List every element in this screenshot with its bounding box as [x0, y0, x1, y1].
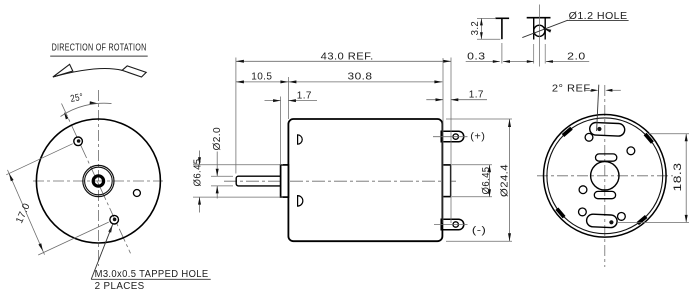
- pin hole lower: [609, 220, 613, 224]
- svg-text:10.5: 10.5: [251, 71, 272, 83]
- arrow dia2.0 top: [216, 169, 219, 177]
- 18.3 extension lower: [617, 221, 689, 223]
- extension line collar left: [280, 97, 282, 165]
- front view 25deg hole axis centerline: [62, 104, 131, 254]
- dimension line dia 6.45 left: [199, 151, 201, 165]
- arrow dia6.45R bottom: [488, 189, 491, 197]
- rotation arrow right tail: [122, 66, 146, 77]
- rim crimp tab NW: [563, 128, 572, 135]
- svg-text:Ø6.45: Ø6.45: [193, 158, 204, 186]
- pin2 edge extensions: [533, 44, 535, 64]
- arrow 30.8 left: [288, 80, 296, 83]
- rear hole NW: [585, 133, 593, 141]
- dia1.2 leader arrow: [543, 28, 551, 32]
- 25deg arc arrow right: [90, 101, 98, 104]
- vent mark lower: [298, 196, 303, 207]
- 2.0 arrow right: [546, 60, 553, 63]
- motor body outline: [288, 119, 442, 241]
- arrow dia6.45L top: [198, 157, 201, 165]
- extension line right end 43.0: [450, 58, 452, 224]
- extension line body top right: [446, 118, 512, 120]
- svg-text:Ø6.45: Ø6.45: [481, 166, 492, 194]
- rear hole SW: [579, 208, 587, 216]
- vent mark upper: [298, 135, 303, 144]
- 18.3 arrow bottom: [685, 215, 688, 223]
- vent slot below center: [594, 191, 615, 198]
- rear view horizontal centerline: [537, 175, 673, 177]
- extension line collar bottom: [193, 196, 283, 198]
- rotation arrow arc: [53, 69, 122, 77]
- front view vertical centerline: [97, 90, 99, 266]
- svg-text:1.7: 1.7: [297, 90, 312, 102]
- rim crimp tab NE: [645, 134, 652, 143]
- 17.0 arrow upper: [9, 173, 14, 181]
- terminal hole positive: [453, 134, 458, 139]
- body centerline: [224, 180, 456, 182]
- arrow 10.5 right: [280, 80, 288, 83]
- rear view inner circle: [547, 118, 663, 234]
- 25deg arc arrow left: [64, 112, 69, 119]
- pin1 stem extension: [501, 43, 503, 64]
- arrow 1.7 left b: [288, 99, 296, 102]
- 3.2 extension top: [477, 17, 495, 19]
- 0.3 2.0 dimension line: [466, 61, 500, 63]
- svg-text:3.2: 3.2: [470, 21, 481, 36]
- rear hole NE: [627, 147, 635, 155]
- dimension line dia 2.0: [216, 152, 218, 177]
- leader arrow to tapped hole: [108, 225, 112, 233]
- svg-text:2.0: 2.0: [567, 51, 586, 62]
- svg-text:25°: 25°: [70, 92, 85, 105]
- dimension line dia 24.4: [509, 119, 511, 241]
- rear view outer circle: [544, 115, 667, 238]
- 17.0 dimension line: [8, 170, 45, 255]
- dia1.2 leader line: [522, 20, 568, 37]
- rear hole W: [579, 186, 587, 194]
- front view horizontal centerline: [33, 180, 163, 182]
- shaft boss outer ring: [83, 165, 114, 196]
- svg-text:1.7: 1.7: [469, 89, 484, 101]
- svg-text:Ø2.0: Ø2.0: [212, 127, 223, 151]
- shaft top line: [236, 176, 280, 186]
- terminal hole negative: [453, 222, 458, 227]
- pin2 left edge: [533, 18, 535, 40]
- 2deg arrow left: [585, 89, 594, 91]
- tapped hole lower: [110, 215, 119, 224]
- 2.0 arrow left: [527, 60, 534, 63]
- terminal centerline positive: [433, 136, 468, 138]
- extension line shaft diameter top: [211, 175, 233, 177]
- pin2 hole dia 1.2: [534, 25, 545, 36]
- 0.3 arrow left: [493, 60, 500, 63]
- pin hole upper: [597, 127, 601, 131]
- rear view vertical centerline: [604, 85, 606, 267]
- 2deg tilted line: [597, 85, 599, 131]
- 17.0 extension line upper: [6, 144, 73, 175]
- terminal tab positive: [441, 131, 464, 142]
- front view outer circle: [36, 119, 160, 243]
- arrow 1.7 right a: [436, 98, 444, 101]
- brush slot upper: [589, 122, 625, 136]
- arrow dia2.0 bottom: [216, 186, 219, 194]
- 3.2 arrow top: [480, 18, 483, 25]
- 2deg arrow right: [611, 89, 621, 91]
- arrow 43.0 left: [236, 60, 244, 63]
- rim crimp tab SE: [638, 217, 647, 224]
- tapped hole upper: [74, 137, 83, 146]
- svg-text:(+): (+): [470, 132, 485, 143]
- arrow 30.8 right: [434, 80, 442, 83]
- extension line cap right face: [442, 58, 444, 223]
- arrow 1.7 left a: [273, 99, 281, 102]
- rotation arrow left head: [53, 64, 73, 77]
- arrow dia6.45R top: [488, 165, 491, 173]
- brush slot lower: [586, 214, 617, 228]
- shaft boss inner ring: [85, 167, 113, 195]
- 3.2 arrow bottom: [480, 32, 483, 39]
- extension line shaft tip: [235, 58, 237, 174]
- shaft bore bold circle: [93, 176, 103, 186]
- shaft collar: [281, 165, 289, 197]
- extension line shaft diameter bottom: [211, 185, 233, 187]
- vent slot above center: [596, 154, 617, 161]
- svg-text:18.3: 18.3: [672, 163, 684, 192]
- svg-text:43.0 REF.: 43.0 REF.: [321, 50, 374, 62]
- svg-text:(-): (-): [472, 226, 487, 237]
- pin2 right edge: [544, 18, 546, 40]
- 17.0 extension line lower: [38, 222, 109, 255]
- svg-text:DIRECTION OF ROTATION: DIRECTION OF ROTATION: [52, 41, 147, 53]
- small hole right: [133, 190, 140, 197]
- terminal tab negative: [441, 219, 464, 230]
- dimension line 43.0: [236, 60, 451, 62]
- svg-text:30.8: 30.8: [348, 71, 373, 83]
- rear bearing boss: [442, 165, 450, 197]
- svg-text:M3.0x0.5 TAPPED HOLE: M3.0x0.5 TAPPED HOLE: [95, 269, 209, 280]
- dimension line 1.7 left: [265, 100, 281, 102]
- pin2 centerline: [538, 5, 540, 67]
- pin1 stem: [501, 18, 503, 39]
- dimension line dia 6.45 right: [489, 165, 491, 197]
- arrow dia24.4 bottom: [508, 233, 511, 241]
- title underline: [50, 55, 148, 57]
- leader line: [91, 225, 112, 280]
- 25deg dimension arc: [61, 103, 112, 116]
- terminal centerline negative: [434, 224, 468, 226]
- 17.0 arrow lower: [38, 243, 43, 251]
- extension line body bottom right: [446, 240, 512, 242]
- arrow 1.7 right b: [451, 98, 459, 101]
- rear hole SE: [618, 213, 626, 221]
- pin1 flange: [495, 17, 509, 19]
- 3.2 extension bottom: [477, 38, 500, 40]
- rear center hole: [591, 162, 619, 190]
- extension line collar top: [193, 164, 283, 166]
- arrow dia24.4 top: [508, 119, 511, 127]
- arrow dia6.45L bottom: [198, 197, 201, 205]
- 18.3 dimension line: [685, 134, 687, 223]
- arrow 10.5 left: [236, 80, 244, 83]
- dia1.2 underline: [567, 20, 628, 22]
- svg-text:2 PLACES: 2 PLACES: [95, 281, 145, 291]
- 0.3 arrow right: [503, 60, 510, 63]
- extension line body left face: [287, 77, 289, 119]
- rim crimp tab SW: [557, 209, 564, 218]
- 18.3 extension upper: [648, 133, 689, 135]
- arrow 43.0 right: [443, 60, 451, 63]
- dimension line 1.7 right: [426, 99, 443, 101]
- svg-text:2° REF.: 2° REF.: [552, 84, 593, 95]
- svg-text:Ø24.4: Ø24.4: [500, 164, 511, 197]
- extension line boss bottom right: [452, 196, 492, 198]
- 18.3 arrow top: [685, 134, 688, 142]
- leader underline: [91, 278, 211, 280]
- dimension line 10.5 and 30.8: [236, 81, 443, 83]
- extension line boss top right: [452, 164, 492, 166]
- svg-text:0.3: 0.3: [467, 51, 486, 62]
- pin2 flange: [527, 17, 551, 19]
- 3.2 dimension line: [480, 18, 482, 39]
